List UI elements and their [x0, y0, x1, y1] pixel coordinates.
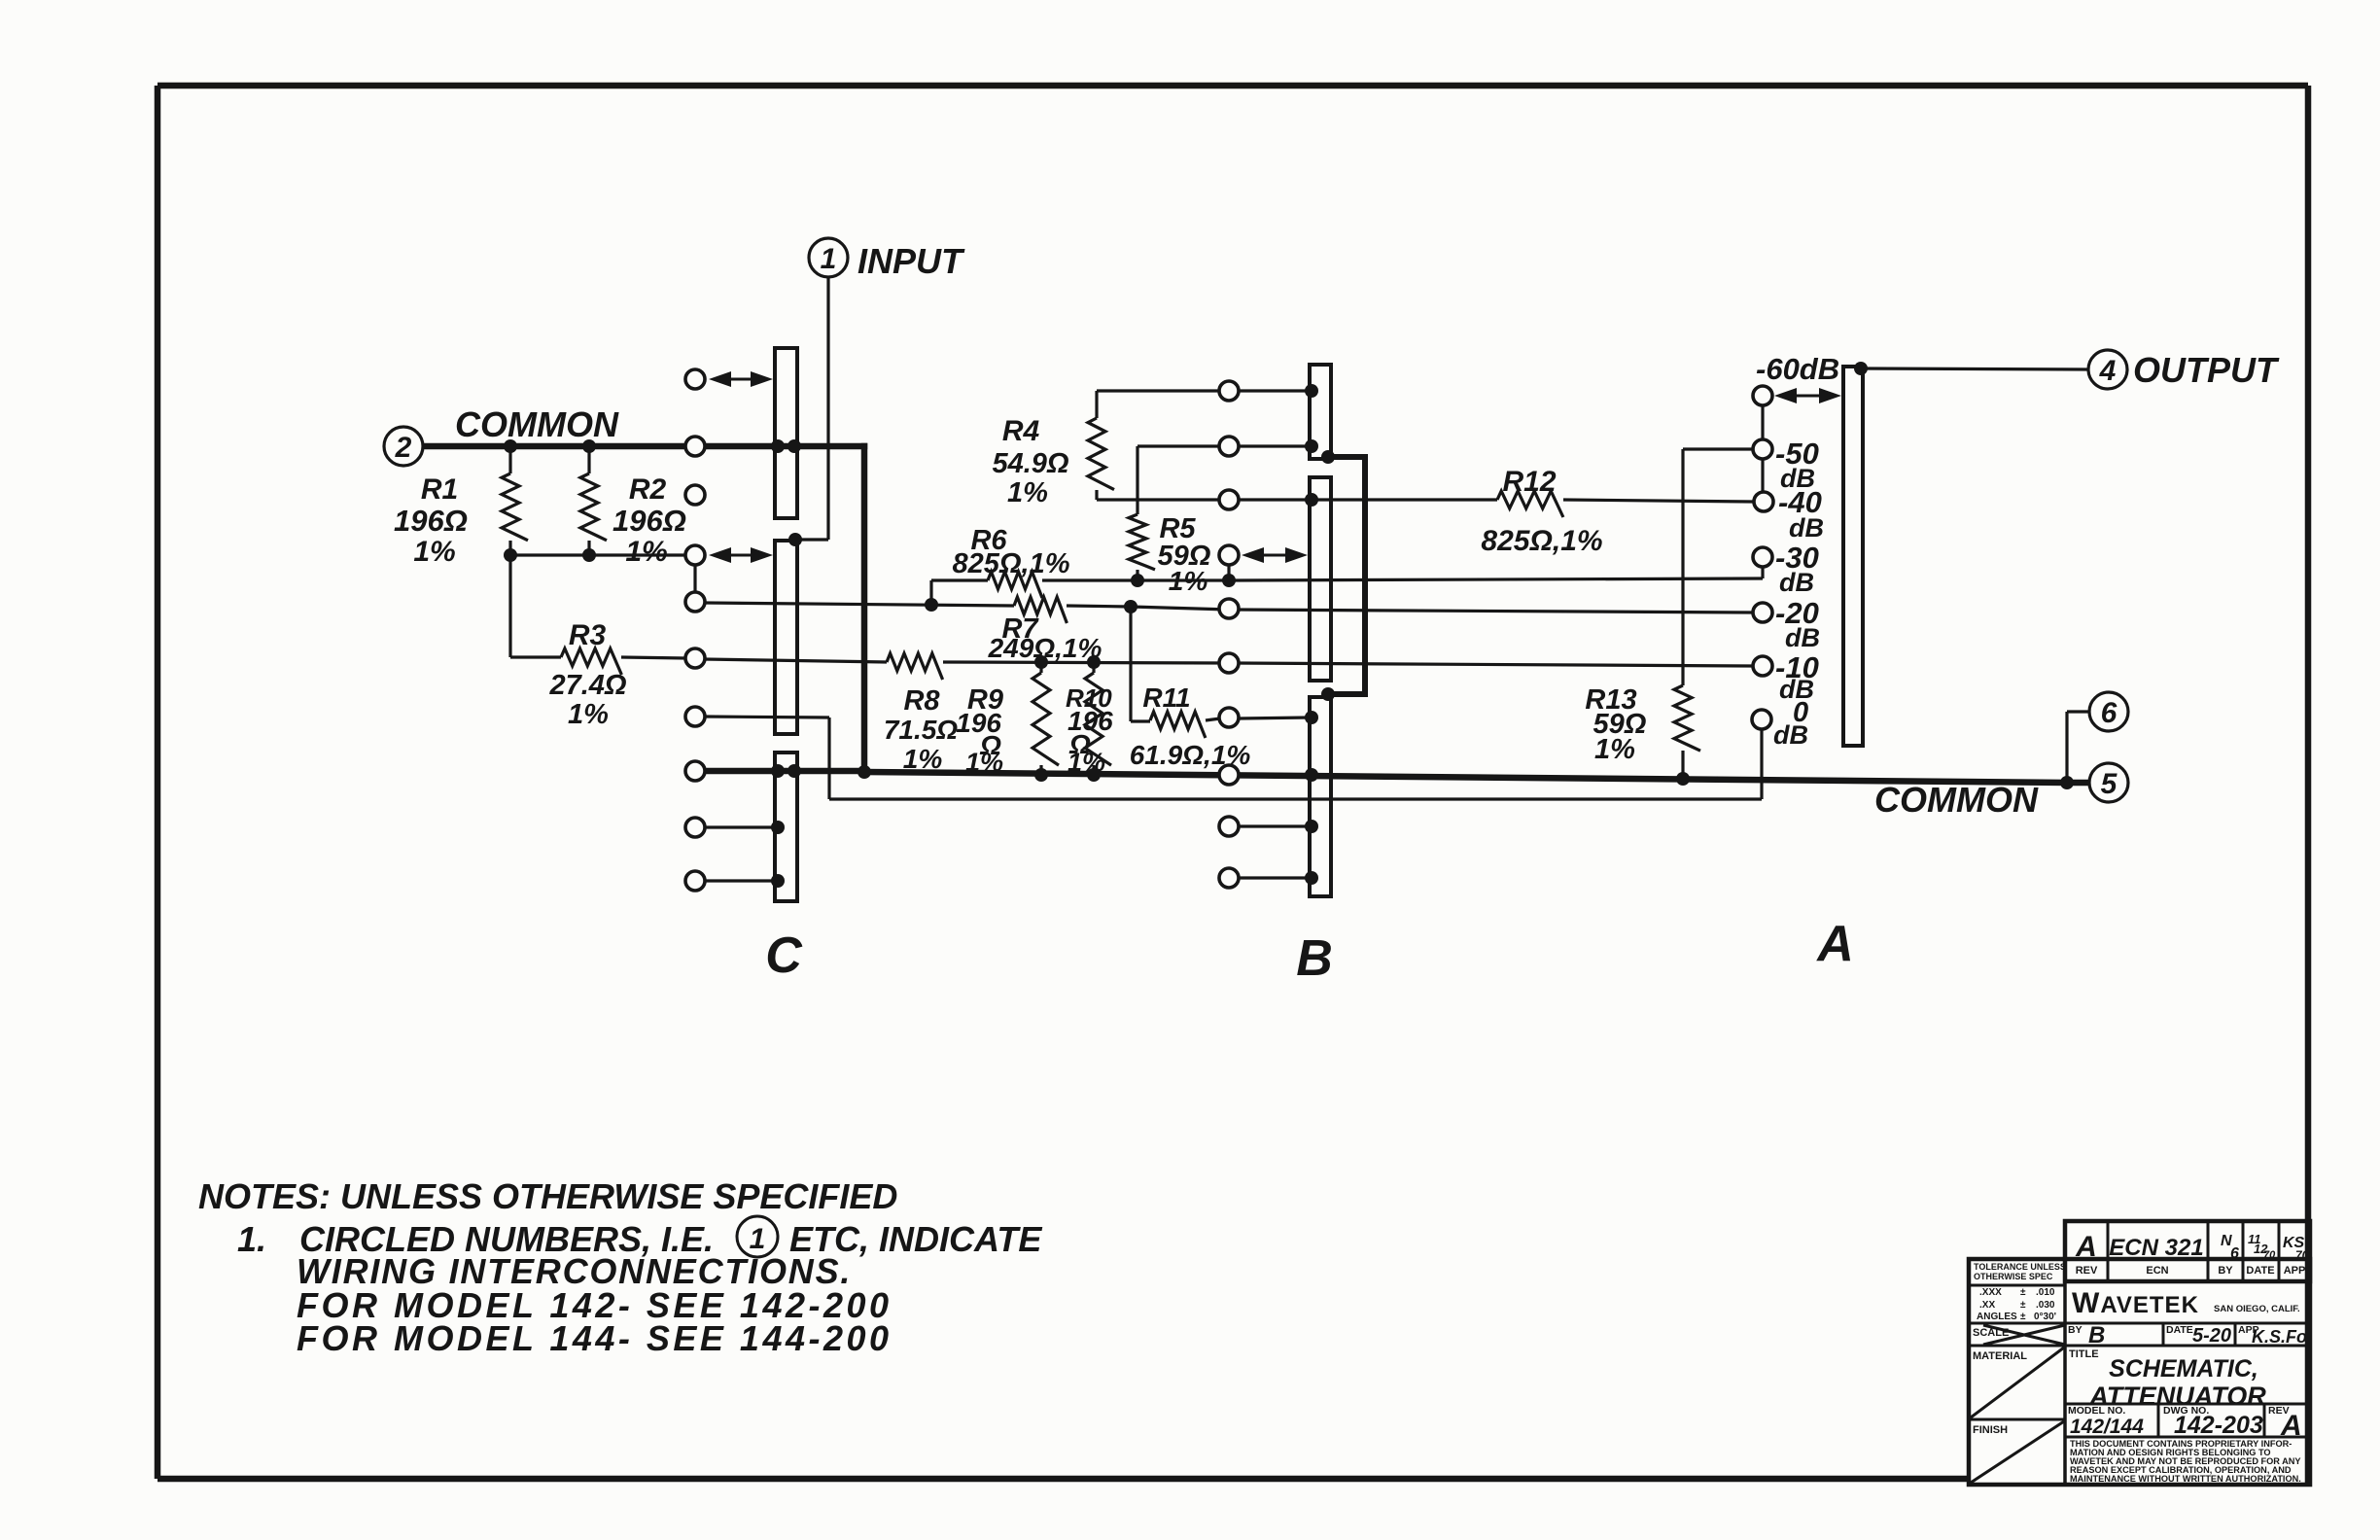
svg-text:C: C	[765, 927, 803, 984]
svg-text:dB: dB	[1789, 513, 1824, 542]
svg-text:BY: BY	[2218, 1265, 2233, 1277]
svg-text:.XXX: .XXX	[1979, 1287, 2002, 1298]
svg-text:dB: dB	[1785, 623, 1820, 652]
svg-text:54.9Ω: 54.9Ω	[992, 448, 1068, 479]
svg-text:dB: dB	[1779, 568, 1814, 597]
svg-text:A: A	[2280, 1410, 2302, 1442]
svg-text:±: ±	[2020, 1300, 2026, 1311]
svg-text:71.5Ω: 71.5Ω	[884, 715, 958, 745]
svg-text:196Ω: 196Ω	[394, 504, 468, 538]
svg-text:825Ω,1%: 825Ω,1%	[1481, 525, 1602, 557]
svg-text:1%: 1%	[568, 699, 609, 730]
svg-text:WAVETEK: WAVETEK	[2072, 1287, 2199, 1319]
svg-text:R4: R4	[1002, 415, 1040, 447]
svg-text:ECN 321: ECN 321	[2109, 1235, 2203, 1261]
svg-text:R2: R2	[629, 473, 667, 506]
svg-text:1%: 1%	[1169, 566, 1208, 596]
svg-text:142/144: 142/144	[2070, 1416, 2144, 1438]
svg-text:6: 6	[2230, 1245, 2239, 1262]
svg-text:1%: 1%	[965, 748, 1003, 777]
svg-text:MAINTENANCE WITHOUT WRITTEN AU: MAINTENANCE WITHOUT WRITTEN AUTHORIZATIO…	[2070, 1474, 2301, 1484]
svg-text:SAN OIEGO, CALIF.: SAN OIEGO, CALIF.	[2214, 1304, 2300, 1314]
svg-text:B: B	[2088, 1322, 2105, 1348]
svg-text:1%: 1%	[1067, 748, 1105, 777]
svg-text:A: A	[1815, 916, 1854, 972]
svg-text:R3: R3	[569, 619, 607, 651]
svg-text:70: 70	[2295, 1248, 2309, 1262]
svg-text:ANGLES: ANGLES	[1977, 1312, 2017, 1322]
svg-text:142-203: 142-203	[2174, 1412, 2263, 1439]
svg-text:R11: R11	[1142, 682, 1190, 713]
svg-text:B: B	[1296, 930, 1333, 987]
svg-text:1%: 1%	[903, 744, 943, 774]
svg-text:dB: dB	[1773, 720, 1808, 750]
svg-text:249Ω,1%: 249Ω,1%	[988, 633, 1102, 663]
svg-text:TITLE: TITLE	[2069, 1348, 2099, 1360]
svg-text:A: A	[2075, 1231, 2097, 1263]
svg-text:5-20: 5-20	[2192, 1325, 2231, 1347]
svg-text:-60dB: -60dB	[1756, 352, 1839, 386]
svg-text:27.4Ω: 27.4Ω	[548, 670, 626, 701]
svg-text:1%: 1%	[413, 536, 455, 568]
svg-text:825Ω,1%: 825Ω,1%	[953, 548, 1070, 579]
svg-text:INPUT: INPUT	[857, 241, 965, 281]
svg-text:BY: BY	[2068, 1324, 2082, 1336]
svg-text:6: 6	[2101, 697, 2117, 729]
svg-text:SCALE: SCALE	[1973, 1327, 2009, 1339]
svg-text:1: 1	[821, 243, 837, 275]
svg-text:.010: .010	[2036, 1287, 2055, 1298]
svg-text:ECN: ECN	[2146, 1265, 2168, 1277]
svg-text:OTHERWISE SPEC: OTHERWISE SPEC	[1974, 1272, 2053, 1281]
svg-text:K.S.Fo: K.S.Fo	[2252, 1327, 2307, 1347]
svg-text:196Ω: 196Ω	[612, 504, 686, 538]
svg-text:TOLERANCE UNLESS: TOLERANCE UNLESS	[1974, 1262, 2066, 1272]
svg-text:±: ±	[2020, 1287, 2026, 1298]
svg-text:FOR MODEL 144- SEE 144-200: FOR MODEL 144- SEE 144-200	[297, 1318, 892, 1358]
svg-text:1%: 1%	[625, 536, 667, 568]
svg-text:1%: 1%	[1594, 734, 1635, 765]
svg-text:R1: R1	[421, 473, 458, 506]
svg-text:DATE: DATE	[2246, 1265, 2274, 1277]
svg-text:REV: REV	[2076, 1265, 2098, 1277]
svg-text:.XX: .XX	[1979, 1300, 1995, 1311]
svg-text:70: 70	[2263, 1249, 2276, 1261]
svg-text:NOTES: UNLESS OTHERWISE SPECIF: NOTES: UNLESS OTHERWISE SPECIFIED	[198, 1176, 897, 1216]
svg-text:FINISH: FINISH	[1973, 1424, 2008, 1436]
svg-text:APP: APP	[2284, 1265, 2306, 1277]
svg-text:R8: R8	[903, 685, 940, 717]
svg-text:MATERIAL: MATERIAL	[1973, 1350, 2027, 1362]
svg-text:COMMON: COMMON	[1874, 780, 2039, 820]
svg-text:DATE: DATE	[2166, 1324, 2193, 1336]
svg-text:COMMON: COMMON	[455, 404, 619, 444]
svg-text:1.: 1.	[237, 1219, 266, 1259]
svg-text:SCHEMATIC,: SCHEMATIC,	[2109, 1355, 2258, 1382]
svg-text:4: 4	[2099, 355, 2117, 387]
svg-text:1%: 1%	[1007, 477, 1048, 508]
svg-text:5: 5	[2101, 768, 2118, 800]
svg-text:2: 2	[395, 432, 412, 464]
svg-text:±: ±	[2020, 1312, 2026, 1322]
svg-text:OUTPUT: OUTPUT	[2133, 350, 2280, 390]
svg-text:61.9Ω,1%: 61.9Ω,1%	[1130, 740, 1251, 770]
svg-text:R12: R12	[1502, 466, 1556, 498]
svg-text:0°30': 0°30'	[2034, 1312, 2056, 1322]
svg-text:.030: .030	[2036, 1300, 2055, 1311]
